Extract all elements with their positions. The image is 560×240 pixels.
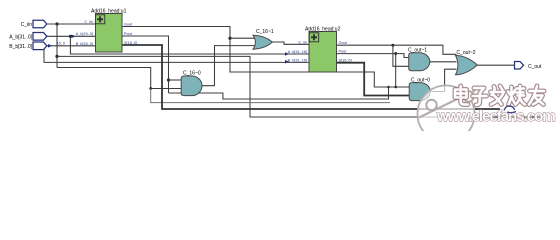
wire Gout2 from u2 over and-gate to OR C_out~2 top	[337, 45, 457, 54]
wire Pout1 branch to and C_16~0 top input	[169, 79, 182, 81]
svg-text:C_out~0: C_out~0	[411, 77, 430, 83]
node C_in junction	[55, 22, 58, 25]
node Gout2 branch	[391, 44, 394, 47]
svg-text:B_b[31..0]: B_b[31..0]	[9, 44, 32, 50]
wire Pout2 branch down to and0 top	[395, 54, 397, 87]
watermark char 电	[455, 86, 468, 105]
bus tap arrow B u2	[285, 60, 289, 64]
svg-text:Pout: Pout	[124, 32, 133, 36]
svg-text:C_16~1: C_16~1	[256, 29, 274, 35]
wire OR C_out~2 output to port	[477, 64, 515, 66]
bus tap arrow B u1	[48, 44, 52, 48]
input port C_iin	[33, 20, 47, 28]
wire Pout1 lower route	[169, 87, 389, 99]
svg-text:Add16_head:u2: Add16_head:u2	[305, 26, 341, 32]
svg-text:S[15..0]: S[15..0]	[124, 41, 137, 45]
or-gate C_out~2	[456, 55, 478, 74]
wire and C_out~1 output to OR C_out~2 middle	[430, 61, 457, 63]
wire faint lower line	[151, 89, 390, 103]
or-gate C_16~1	[253, 35, 273, 49]
node B junction	[42, 44, 45, 47]
wire Pout2 from u2 to and C_out~1 top	[337, 54, 409, 58]
block Add16_head:u1	[96, 14, 123, 53]
svg-text:C_iin: C_iin	[298, 40, 307, 44]
watermark char 烧	[508, 86, 525, 105]
svg-text:C_iin: C_iin	[84, 20, 93, 24]
watermark url text	[436, 108, 555, 125]
svg-text:A_b[15..0]: A_b[15..0]	[76, 32, 93, 36]
node Pout2 branch	[394, 52, 397, 55]
wire Gout1 branch to OR top input	[230, 37, 256, 39]
node C branch	[55, 55, 58, 58]
svg-text:A_b[31..0]: A_b[31..0]	[9, 34, 32, 40]
svg-text:C_iin: C_iin	[21, 22, 33, 28]
wire S1 bus from u1	[122, 45, 500, 109]
svg-text:Add16_head:u1: Add16_head:u1	[91, 8, 127, 14]
wire Gout2 branch to and C_out~1 bottom	[393, 45, 409, 66]
wire and C_out~0 output to OR C_out~2 bottom	[431, 69, 457, 91]
logo diagonal	[419, 91, 475, 118]
input port B_b[31..0]	[33, 42, 47, 50]
wire Pout1 from u1 down	[122, 36, 169, 93]
block Add16_head:u2	[309, 32, 337, 73]
logo dot left	[426, 100, 436, 110]
wire Gout1 from u1 to OR C_16~1	[122, 27, 409, 88]
wire C_16~1 output to u2 C_in	[272, 42, 309, 44]
logo dot right	[463, 91, 473, 101]
wire S2 bus from u2 to and C_out~0 bottom	[337, 63, 410, 96]
wire A_b[31..16] to u2	[70, 36, 309, 54]
node Pout2 join	[394, 86, 397, 89]
watermark navy accent	[504, 106, 516, 113]
wire C_in branch to far right bottom	[57, 56, 542, 117]
wire B_b from port to u1	[47, 45, 96, 47]
node Pout1 branch	[167, 78, 170, 81]
and-gate C_out~1	[409, 53, 430, 71]
and-gate C_out~0	[409, 83, 430, 101]
wire A_b from port to u1	[47, 35, 96, 37]
svg-text:Gout: Gout	[339, 41, 348, 45]
svg-text:B_b[31..16]: B_b[31..16]	[288, 59, 307, 63]
output port C_out	[515, 62, 524, 70]
svg-text:www.elecfans.com: www.elecfans.com	[436, 108, 555, 125]
svg-text:C_16~0: C_16~0	[183, 71, 201, 77]
wire C_in vertical drop	[56, 24, 58, 68]
u2 expand icon	[309, 33, 318, 42]
node A junction	[69, 35, 72, 38]
bus tap arrow A u2	[285, 52, 289, 56]
node Gout1 branch	[228, 37, 231, 40]
svg-text:S[15..0]: S[15..0]	[339, 59, 352, 63]
watermark elecfans logo and text	[418, 86, 476, 143]
svg-text:Pout: Pout	[339, 50, 348, 54]
wire B_b[31..16] to u2	[44, 46, 309, 63]
svg-text:C_out: C_out	[528, 64, 542, 70]
wire C_16~0 output to OR bottom input	[202, 46, 256, 86]
and-gate C_16~0	[181, 76, 202, 96]
node C16and junction	[149, 87, 152, 90]
bus tap arrow A u1	[72, 35, 76, 39]
watermark char 子	[473, 88, 487, 105]
wire C_in from port to u1	[47, 23, 96, 25]
u1 expand icon	[95, 15, 104, 24]
svg-text:A_b[31..16]: A_b[31..16]	[288, 50, 307, 54]
watermark char 友	[529, 86, 544, 105]
logo big circle	[418, 86, 475, 143]
svg-text:15..0: 15..0	[57, 42, 65, 46]
watermark char 发	[491, 86, 505, 105]
wire C_in to and C_16~0 bottom input	[57, 68, 181, 89]
svg-text:Gout: Gout	[124, 22, 133, 26]
node and0top junction	[387, 86, 390, 89]
svg-text:C_out~1: C_out~1	[408, 48, 427, 54]
input port A_b[31..0]	[33, 33, 47, 41]
svg-text:B_b[15..0]: B_b[15..0]	[76, 42, 93, 46]
svg-text:C_out~2: C_out~2	[457, 50, 476, 56]
